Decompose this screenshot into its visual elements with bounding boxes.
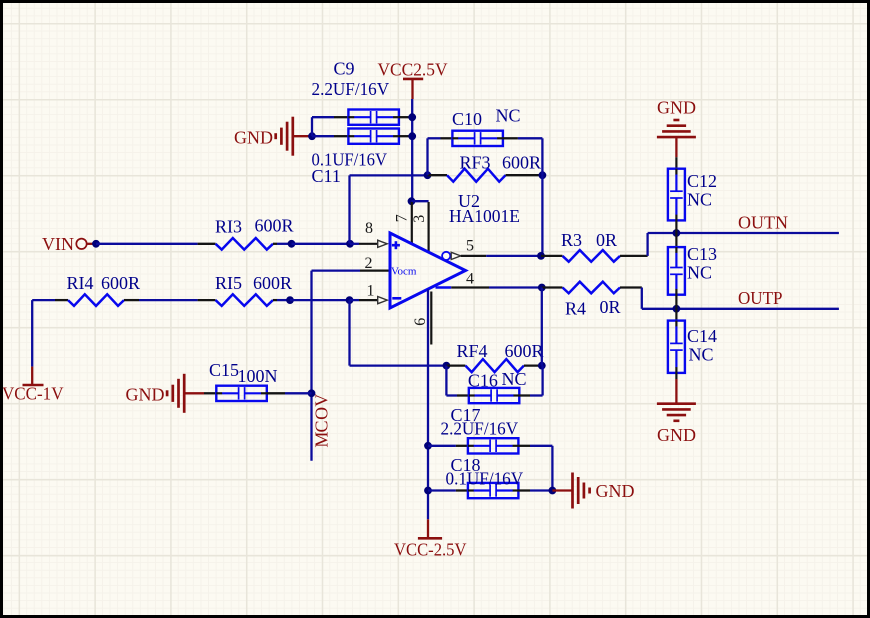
- wire OUTN: [648, 232, 839, 234]
- wire to pin 1: [350, 299, 360, 301]
- label C14: [687, 326, 717, 346]
- power symbol VCC-1V: [23, 367, 44, 385]
- capacitor C14 pin top: [675, 309, 677, 321]
- power symbol VCC-2.5V: [418, 519, 442, 538]
- capacitor C9 lead left: [334, 116, 348, 118]
- capacitor C15: [216, 386, 266, 401]
- label RI4: [67, 273, 94, 293]
- label R3: [561, 230, 582, 250]
- svg-text:7: 7: [393, 214, 410, 222]
- svg-text:C12: C12: [687, 171, 717, 191]
- svg-text:C14: C14: [687, 326, 717, 346]
- svg-text:C10: C10: [452, 109, 482, 129]
- value NC of C10: [496, 106, 521, 126]
- capacitor C17: [468, 438, 519, 453]
- svg-text:VCC-1V: VCC-1V: [2, 384, 64, 404]
- svg-text:RI3: RI3: [215, 217, 242, 237]
- svg-text:0.1UF/16V: 0.1UF/16V: [446, 469, 524, 489]
- capacitor C16 lead right: [519, 394, 530, 396]
- svg-text:OUTP: OUTP: [738, 288, 783, 308]
- label C12: [687, 171, 717, 191]
- svg-text:4: 4: [466, 271, 474, 288]
- label GND (C17/C18): [596, 481, 635, 501]
- label R4: [565, 299, 586, 319]
- wire to C18: [428, 489, 456, 491]
- svg-text:GND: GND: [657, 425, 696, 445]
- wire RI5 to junction: [277, 299, 290, 301]
- label VCC-1V: [2, 384, 64, 404]
- value 600R of RF3: [502, 153, 541, 173]
- svg-text:100N: 100N: [238, 366, 278, 386]
- svg-text:0R: 0R: [596, 230, 617, 250]
- capacitor C15 lead right: [267, 392, 285, 394]
- VIN open terminal: [76, 239, 86, 249]
- wire to pin 8: [350, 243, 359, 245]
- capacitor C11 lead right: [399, 135, 412, 137]
- wire RI4 to RI5: [139, 299, 198, 301]
- op-amp Vocm marking: [391, 266, 417, 278]
- svg-text:2: 2: [365, 255, 373, 272]
- svg-text:NC: NC: [496, 106, 521, 126]
- svg-text:V: V: [311, 394, 331, 407]
- wire GND to C15: [185, 392, 204, 394]
- pin number 6 (rotated): [412, 318, 429, 326]
- junction RF4/C16 right: [538, 362, 546, 370]
- junction OUTN/C12/C13: [673, 229, 681, 237]
- svg-text:M: M: [311, 432, 331, 448]
- capacitor C13 pin bottom: [675, 295, 677, 309]
- wire RI3 to junction: [277, 243, 292, 245]
- resistor R3: [541, 250, 648, 262]
- svg-text:600R: 600R: [255, 216, 294, 236]
- svg-text:R3: R3: [561, 230, 582, 250]
- capacitor C17 lead left: [456, 445, 468, 447]
- wire R3 step up: [646, 233, 648, 256]
- svg-text:VCC2.5V: VCC2.5V: [378, 59, 448, 79]
- op-amp pin 8 stub: [359, 243, 378, 245]
- capacitor C10: [452, 131, 503, 146]
- resistor RI5: [198, 294, 277, 306]
- value 0.1UF/16V of C18: [446, 469, 524, 489]
- ground GND (bottom right): [657, 404, 696, 421]
- label C11: [312, 166, 341, 186]
- wire C9-C11 left vertical: [311, 117, 313, 136]
- junction C15/VOCM: [308, 389, 316, 397]
- wire RF4 to pin4 net: [541, 288, 543, 366]
- wire to C11: [312, 135, 334, 137]
- svg-text:GND: GND: [234, 128, 273, 148]
- wire C10 left drop: [426, 138, 428, 175]
- op-amp plus marking: [392, 241, 400, 249]
- wire pin 6 / VCC-2.5V vertical: [427, 289, 429, 519]
- net label OUTP: [738, 288, 783, 308]
- resistor RF4: [446, 359, 541, 372]
- wire feedback horizontal to RF4: [350, 364, 447, 366]
- capacitor C14: [668, 321, 685, 373]
- ground GND (top right): [657, 120, 696, 137]
- value 600R of RF4: [505, 341, 544, 361]
- junction C18 left: [424, 487, 432, 495]
- svg-text:600R: 600R: [502, 153, 541, 173]
- op-amp pin 5 bubble: [442, 252, 450, 260]
- svg-text:0R: 0R: [600, 297, 621, 317]
- wire to pin1 feedback node: [290, 299, 350, 301]
- junction RF4/C16 left: [443, 362, 451, 370]
- junction C17 left: [424, 442, 432, 450]
- pin number 8: [365, 220, 373, 237]
- resistor RI4: [55, 294, 139, 306]
- svg-text:GND: GND: [657, 98, 696, 118]
- value 0.1UF/16V of C11: [312, 149, 388, 169]
- svg-text:R4: R4: [565, 299, 586, 319]
- capacitor C11 lead left: [334, 135, 348, 137]
- label RI3: [215, 217, 242, 237]
- capacitor C13: [668, 247, 685, 295]
- net label VCC2.5V: [378, 59, 448, 79]
- capacitor C13 pin top: [675, 233, 677, 247]
- ground GND (C9/C11): [276, 117, 293, 156]
- junction at VIN: [92, 240, 100, 248]
- junction pins 7/3: [408, 197, 416, 205]
- label GND (top right): [657, 98, 696, 118]
- label GND (C15): [126, 385, 165, 405]
- wire C10 right drop: [541, 138, 543, 175]
- label C17: [451, 405, 481, 425]
- junction C9 right: [408, 113, 416, 121]
- op-amp pin 4 stub: [436, 286, 490, 289]
- svg-text:GND: GND: [596, 481, 635, 501]
- label RI5: [215, 273, 242, 293]
- svg-text:NC: NC: [689, 345, 714, 365]
- capacitor C12 pin top: [675, 157, 677, 169]
- label C16: [468, 371, 498, 391]
- capacitor C11: [348, 129, 399, 144]
- pin number 3 (rotated): [411, 215, 428, 223]
- net label VIN: [42, 234, 74, 254]
- svg-text:VIN: VIN: [42, 234, 74, 254]
- svg-text:O: O: [311, 407, 331, 420]
- pin number 7 (rotated): [393, 214, 410, 222]
- wire down to VCC-1V: [31, 300, 33, 367]
- pin number 5: [466, 238, 474, 255]
- op-amp pin 3 stub: [428, 202, 430, 252]
- svg-text:3: 3: [411, 215, 428, 223]
- wire GND to C12: [675, 138, 677, 157]
- wire feedback horizontal to RF3: [350, 174, 428, 176]
- wire GND node to ground: [552, 489, 571, 491]
- label VCC-2.5V: [394, 540, 467, 560]
- svg-text:NC: NC: [502, 369, 527, 389]
- svg-text:8: 8: [365, 220, 373, 237]
- power symbol VCC2.5V bar: [403, 79, 423, 99]
- junction C11 right: [408, 132, 416, 140]
- junction after RI5: [286, 296, 294, 304]
- wire R4 step down: [641, 288, 643, 309]
- svg-text:2.2UF/16V: 2.2UF/16V: [312, 79, 390, 99]
- net label OUTN: [738, 213, 788, 233]
- wire VIN stub: [87, 243, 94, 245]
- value NC of C12: [687, 190, 712, 210]
- svg-text:RI4: RI4: [67, 273, 94, 293]
- svg-text:RI5: RI5: [215, 273, 242, 293]
- svg-text:NC: NC: [687, 190, 712, 210]
- wire C18 to GND node: [530, 489, 552, 491]
- resistor R4: [542, 282, 642, 294]
- label C15: [209, 360, 239, 380]
- label C13: [687, 244, 717, 264]
- op-amp pin 7 stub: [411, 202, 413, 244]
- capacitor C18: [468, 483, 519, 498]
- wire pin5 to R3: [486, 255, 541, 257]
- svg-text:6: 6: [412, 318, 429, 326]
- pin 1 input arrow: [378, 297, 388, 304]
- wire C16 left drop: [445, 366, 447, 396]
- wire C16 to right riser: [530, 394, 543, 396]
- svg-text:RF3: RF3: [460, 153, 491, 173]
- svg-text:GND: GND: [126, 385, 165, 405]
- capacitor C14 pin bottom: [675, 373, 677, 379]
- pin 8 input arrow: [378, 240, 388, 247]
- junction pin4/RF4: [538, 284, 546, 292]
- wire corner to RI4: [32, 299, 55, 301]
- capacitor C18 lead right: [518, 489, 530, 491]
- svg-text:RF4: RF4: [457, 341, 488, 361]
- capacitor C12: [668, 169, 685, 221]
- pin number 1: [367, 283, 375, 300]
- value 0R of R3: [596, 230, 617, 250]
- svg-text:C16: C16: [468, 371, 498, 391]
- svg-text:C13: C13: [687, 244, 717, 264]
- wire to feedback node A: [292, 243, 351, 245]
- junction RF3/C10 right: [539, 171, 547, 179]
- svg-text:600R: 600R: [505, 341, 544, 361]
- svg-text:600R: 600R: [253, 273, 292, 293]
- svg-text:Vocm: Vocm: [391, 266, 417, 278]
- wire pin 2 to VOCM net: [312, 269, 361, 271]
- svg-text:C15: C15: [209, 360, 239, 380]
- capacitor C15 lead left: [204, 392, 216, 394]
- svg-text:C11: C11: [312, 166, 341, 186]
- net label VOCM (rotated): [311, 394, 331, 448]
- wire C14 to GND: [675, 379, 677, 403]
- wire C16 right riser: [541, 366, 543, 396]
- wire OUTP: [642, 308, 839, 310]
- wire to C17: [428, 445, 456, 447]
- svg-text:1: 1: [367, 283, 375, 300]
- value NC of C16: [502, 369, 527, 389]
- label RF4: [457, 341, 488, 361]
- capacitor C9: [348, 110, 399, 125]
- svg-text:HA1001E: HA1001E: [449, 206, 520, 226]
- junction node pin8/feedback: [346, 240, 354, 248]
- junction node pin1/feedback: [346, 296, 354, 304]
- capacitor C18 lead left: [456, 489, 468, 491]
- label GND (C9/C11): [234, 128, 273, 148]
- op-amp U2 HA1001E body: [390, 233, 466, 308]
- value 600R of RI4: [101, 273, 140, 293]
- ground GND (C17/C18): [573, 473, 590, 509]
- svg-text:2.2UF/16V: 2.2UF/16V: [441, 419, 519, 439]
- value NC of C14: [689, 345, 714, 365]
- pin 5 output arrow: [451, 252, 461, 259]
- op-amp pin 1 stub: [359, 299, 378, 301]
- capacitor C16: [469, 388, 520, 403]
- wire VCC2.5V rail: [411, 99, 413, 201]
- wire to C10: [428, 137, 441, 139]
- op-amp minus marking: [392, 297, 401, 300]
- label RF3: [460, 153, 491, 173]
- junction pin5/RF3: [537, 252, 545, 260]
- label C10: [452, 109, 482, 129]
- wire to C9: [312, 116, 334, 118]
- capacitor C17 lead right: [518, 445, 530, 447]
- value 0R of R4: [600, 297, 621, 317]
- value 2.2UF/16V of C17: [441, 419, 519, 439]
- wire C17 to right riser: [530, 445, 552, 447]
- resistor RF3: [428, 169, 543, 182]
- value 600R of RI3: [255, 216, 294, 236]
- label GND (bottom right): [657, 425, 696, 445]
- pin number 4: [466, 271, 474, 288]
- junction C11 left: [308, 132, 316, 140]
- wire C10 to right drop: [518, 137, 543, 139]
- wire feedback vertical (pin1): [348, 300, 350, 366]
- wire C15 to VOCM: [285, 392, 312, 394]
- value 600R of RI5: [253, 273, 292, 293]
- wire C17/C18 right vertical: [551, 446, 553, 491]
- op-amp pin 2 stub: [360, 270, 390, 272]
- label C18: [451, 455, 481, 475]
- wire GND to C11 node: [294, 135, 312, 137]
- capacitor C9 lead right: [399, 116, 412, 118]
- capacitor C10 lead left: [441, 137, 453, 139]
- op-amp pin 6 stub: [430, 292, 432, 345]
- wire pin4 to R4: [489, 286, 542, 288]
- value 100N of C15: [238, 366, 278, 386]
- svg-text:600R: 600R: [101, 273, 140, 293]
- junction OUTP/C13/C14: [673, 305, 681, 313]
- part HA1001E: [449, 206, 520, 226]
- svg-text:C: C: [311, 420, 331, 432]
- junction after RI3: [288, 240, 296, 248]
- wire bracket to pin 3: [412, 200, 429, 202]
- value NC of C13: [687, 263, 712, 283]
- svg-text:C9: C9: [334, 59, 355, 79]
- svg-text:5: 5: [466, 238, 474, 255]
- svg-text:OUTN: OUTN: [738, 213, 788, 233]
- value 2.2UF/16V of C9: [312, 79, 390, 99]
- wire to RI3: [96, 243, 198, 245]
- capacitor C10 lead right: [503, 137, 518, 139]
- op-amp pin 5 stub: [461, 255, 487, 257]
- junction C17/C18/GND: [549, 487, 557, 495]
- wire RF3 to pin5 net: [541, 175, 543, 256]
- pin number 2: [365, 255, 373, 272]
- resistor RI3: [198, 238, 277, 250]
- wire VOCM vertical: [310, 271, 312, 461]
- wire feedback vertical (pin8): [348, 175, 350, 243]
- svg-text:NC: NC: [687, 263, 712, 283]
- capacitor C16 lead left: [457, 394, 469, 396]
- label C9: [334, 59, 355, 79]
- ground GND (C15): [167, 374, 184, 413]
- wire to C16: [446, 394, 457, 396]
- designator U2: [458, 191, 480, 211]
- svg-text:VCC-2.5V: VCC-2.5V: [394, 540, 467, 560]
- capacitor C12 pin bottom: [675, 220, 677, 233]
- junction RF3/C10 left: [424, 171, 432, 179]
